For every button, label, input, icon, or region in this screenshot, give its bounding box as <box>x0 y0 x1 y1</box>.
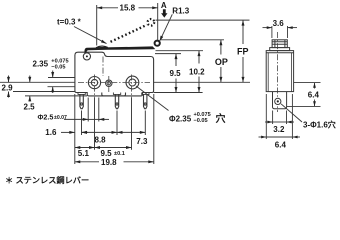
svg-text:5.1: 5.1 <box>78 149 90 158</box>
svg-text:OP: OP <box>215 57 228 67</box>
svg-text:＊ ステンレス鋼レバー: ＊ ステンレス鋼レバー <box>5 175 89 185</box>
svg-text:Φ2.5: Φ2.5 <box>38 112 54 121</box>
svg-text:2.5: 2.5 <box>24 103 36 112</box>
svg-text:2.35: 2.35 <box>33 59 49 68</box>
svg-text:FP: FP <box>237 47 249 57</box>
svg-text:9.5: 9.5 <box>170 69 182 78</box>
svg-text:15.8: 15.8 <box>120 4 136 13</box>
svg-text:A: A <box>161 1 167 10</box>
svg-text:3-Φ1.6穴: 3-Φ1.6穴 <box>303 120 336 130</box>
svg-text:6.4: 6.4 <box>275 140 287 149</box>
svg-text:2.9: 2.9 <box>2 84 14 93</box>
svg-text:1.6: 1.6 <box>45 128 57 137</box>
svg-text:3.2: 3.2 <box>273 125 285 134</box>
svg-text:−0.05: −0.05 <box>51 65 65 71</box>
svg-text:−0.05: −0.05 <box>194 118 208 124</box>
svg-text:R1.3: R1.3 <box>172 6 189 15</box>
svg-text:7.3: 7.3 <box>136 137 148 146</box>
svg-text:19.8: 19.8 <box>101 158 117 167</box>
svg-text:±0.07: ±0.07 <box>54 115 67 121</box>
svg-text:+0.075: +0.075 <box>194 112 211 118</box>
svg-text:6.4: 6.4 <box>308 90 320 99</box>
svg-text:3.6: 3.6 <box>273 19 285 28</box>
svg-text:Φ2.35: Φ2.35 <box>169 114 192 123</box>
svg-text:8.8: 8.8 <box>95 135 107 144</box>
svg-text:±0.1: ±0.1 <box>114 151 125 157</box>
svg-text:t=0.3 *: t=0.3 * <box>57 18 82 27</box>
svg-text:+0.075: +0.075 <box>51 59 68 65</box>
svg-text:穴: 穴 <box>216 112 226 125</box>
svg-text:10.2: 10.2 <box>189 67 205 76</box>
